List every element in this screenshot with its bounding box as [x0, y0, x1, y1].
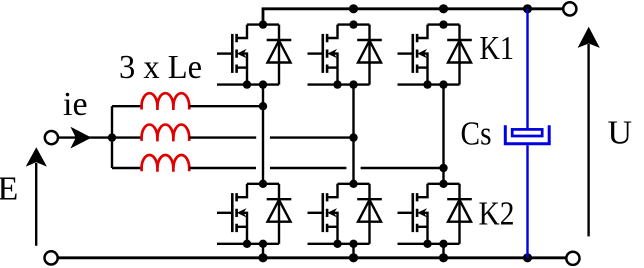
svg-text:E: E: [0, 170, 18, 207]
node Q2 source: [333, 80, 341, 88]
node Q3 midpoint: [439, 80, 447, 88]
terminal: input + (left): [45, 131, 58, 144]
wire leg 2 middle: [352, 85, 354, 184]
wire capacitor top (blue): [526, 9, 528, 128]
wire input to junction: [59, 136, 112, 138]
terminal: output + (top right): [563, 2, 576, 15]
node top rail / leg 3: [439, 4, 448, 13]
arrow U (output voltage): [587, 44, 589, 236]
node Q1 source: [243, 80, 251, 88]
svg-text:K1: K1: [480, 30, 515, 67]
wire bottom rail: [58, 256, 565, 259]
wire cell Q2 bottom: [308, 83, 370, 85]
node bottom rail / capacitor branch: [523, 253, 532, 262]
terminal: output - (bottom right): [566, 252, 579, 265]
capacitor Cs bottom plate: [505, 125, 549, 143]
capacitor Cs top plate: [512, 129, 542, 136]
transistor Q3 (K1, leg 3): [398, 25, 428, 85]
arrow ie (current direction): [70, 127, 91, 149]
transistor Q4 (K2, leg 1): [217, 184, 247, 244]
wire cell Q1 top: [247, 23, 279, 25]
transistor Q2 (K1, leg 2): [308, 25, 338, 85]
wire leg 1 middle: [262, 85, 264, 184]
diode D4 (K2, leg 1): [267, 184, 292, 244]
svg-text:Cs: Cs: [461, 115, 492, 152]
wire leg 3 bottom: [442, 244, 444, 258]
node Q5 source: [333, 240, 341, 248]
node Q6 source: [423, 240, 431, 248]
node Q3 source: [423, 80, 431, 88]
wire phase 3 left: [112, 167, 142, 169]
svg-text:K2: K2: [479, 196, 515, 233]
svg-text:ie: ie: [63, 86, 88, 123]
node Q6 bottom: [439, 240, 447, 248]
node Q1 drain: [259, 20, 267, 28]
wire cell Q5 top: [338, 183, 370, 185]
node Q2 drain: [349, 20, 357, 28]
node top rail / capacitor branch: [523, 4, 532, 13]
wire cell Q5 bottom: [308, 243, 370, 245]
diode D6 (K2, leg 3): [447, 184, 472, 244]
inductor Le2: [142, 125, 190, 138]
wire cell Q3 top: [428, 23, 460, 25]
arrow E (source voltage): [35, 163, 37, 246]
wire top rail: [263, 9, 562, 25]
svg-text:U: U: [608, 114, 633, 151]
transistor Q5 (K2, leg 2): [308, 184, 338, 244]
node phase 2 / leg 2: [349, 133, 357, 141]
node phase 1 / leg 1: [259, 102, 267, 110]
wire phase 1 right: [189, 105, 263, 107]
node Q6 drain: [439, 180, 447, 188]
node bottom rail / leg 1: [258, 253, 267, 262]
transistor Q6 (K2, leg 3): [398, 184, 428, 244]
node Q2 midpoint: [349, 80, 357, 88]
node Q4 drain: [259, 180, 267, 188]
node Q4 bottom: [259, 240, 267, 248]
wire phase 2 right (gap at leg 1 crossing): [189, 136, 353, 138]
node phase 3 / leg 3: [439, 164, 447, 172]
node bottom rail / leg 3: [439, 253, 448, 262]
transistor Q1 (K1, leg 1): [217, 25, 247, 85]
node bottom rail / leg 2: [349, 253, 358, 262]
wire leg 1 bottom: [262, 244, 264, 258]
inductor Le3: [142, 155, 190, 168]
node Q3 drain: [439, 20, 447, 28]
svg-text:3 x Le: 3 x Le: [119, 49, 202, 86]
wire leg 2 bottom: [352, 244, 354, 258]
wire cell Q6 bottom: [398, 243, 460, 245]
wire junction vertical: [111, 106, 113, 168]
wire leg 3 middle: [442, 85, 444, 184]
diode D5 (K2, leg 2): [357, 184, 382, 244]
node top rail / leg 2: [349, 4, 358, 13]
terminal: input - (bottom left): [45, 251, 58, 264]
node Q5 bottom: [349, 240, 357, 248]
wire phase 3 right (gaps at legs 1,2 crossings): [189, 167, 443, 169]
wire cell Q4 bottom: [217, 243, 279, 245]
node input junction: [108, 133, 116, 141]
wire phase 1 left: [112, 105, 142, 107]
wire cell Q4 top: [247, 183, 279, 185]
node Q4 source: [243, 240, 251, 248]
inductor Le1: [142, 93, 190, 106]
diode D3 (K1, leg 3): [447, 25, 472, 85]
diode D1 (K1, leg 1): [267, 25, 292, 85]
wire phase 2 left: [112, 136, 142, 138]
node Q5 drain: [349, 180, 357, 188]
wire cell Q1 bottom: [217, 83, 279, 85]
wire cell Q2 top: [338, 23, 370, 25]
wire cell Q6 top: [428, 183, 460, 185]
diode D2 (K1, leg 2): [357, 25, 382, 85]
wire capacitor bottom (blue): [526, 145, 528, 258]
node Q1 midpoint: [259, 80, 267, 88]
wire cell Q3 bottom: [398, 83, 460, 85]
